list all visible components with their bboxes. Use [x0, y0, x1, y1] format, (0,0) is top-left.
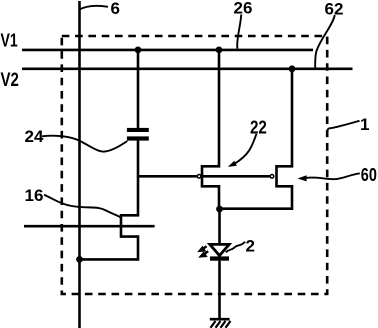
svg-text:16: 16	[25, 186, 44, 205]
svg-text:V1: V1	[1, 31, 18, 51]
svg-text:V2: V2	[1, 69, 19, 90]
svg-text:60: 60	[361, 164, 377, 185]
svg-text:26: 26	[234, 0, 253, 18]
svg-text:2: 2	[246, 237, 255, 256]
svg-text:1: 1	[360, 115, 369, 134]
svg-text:62: 62	[325, 0, 344, 19]
svg-text:6: 6	[111, 0, 120, 18]
svg-text:22: 22	[250, 117, 267, 138]
svg-text:24: 24	[25, 127, 44, 146]
